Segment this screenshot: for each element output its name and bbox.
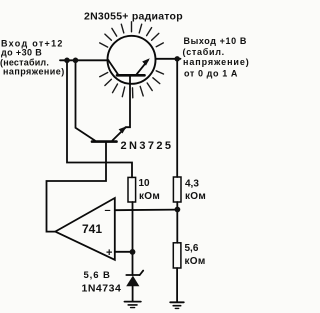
- svg-text:2N3055+ радиатор: 2N3055+ радиатор: [84, 11, 183, 23]
- svg-text:кОм: кОм: [185, 256, 206, 267]
- svg-text:10: 10: [139, 178, 151, 189]
- svg-text:кОм: кОм: [185, 191, 206, 202]
- svg-text:1N4734: 1N4734: [82, 283, 122, 295]
- svg-text:2N3725: 2N3725: [121, 140, 174, 152]
- svg-text:(стабил.: (стабил.: [183, 47, 225, 57]
- svg-text:кОм: кОм: [139, 191, 160, 202]
- svg-text:напряжение): напряжение): [183, 57, 250, 67]
- svg-text:от 0 до 1 А: от 0 до 1 А: [184, 68, 238, 78]
- svg-text:741: 741: [82, 222, 102, 236]
- svg-text:Выход +10 В: Выход +10 В: [184, 36, 247, 46]
- svg-text:5,6 В: 5,6 В: [84, 270, 111, 281]
- svg-text:напряжение): напряжение): [3, 67, 65, 77]
- svg-text:5,6: 5,6: [185, 243, 199, 254]
- svg-text:до +30 В: до +30 В: [1, 48, 42, 58]
- svg-text:–: –: [105, 205, 111, 217]
- svg-text:4,3: 4,3: [185, 179, 199, 190]
- svg-text:+: +: [106, 247, 112, 259]
